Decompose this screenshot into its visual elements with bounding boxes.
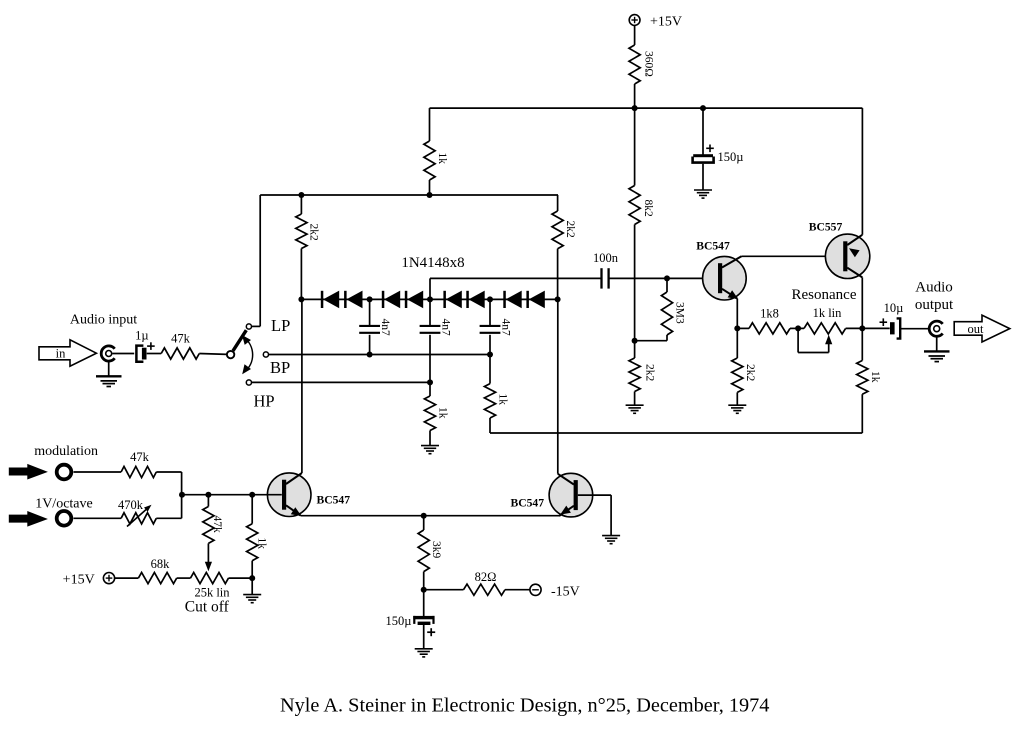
wire 1k to feedback line — [489, 418, 491, 433]
junction 8k2 / 3M3 return — [632, 338, 638, 344]
svg-text:Cut off: Cut off — [185, 599, 230, 616]
svg-text:BC547: BC547 — [317, 494, 351, 507]
resistor 8k2 — [629, 186, 654, 225]
label 25k lin — [194, 585, 230, 599]
junction -15V node — [421, 587, 427, 593]
caption text — [280, 694, 769, 716]
label Audio input — [70, 313, 137, 328]
svg-text:2k2: 2k2 — [644, 364, 656, 382]
junction node B — [367, 296, 373, 302]
junction 4n7 no3 / BP — [487, 352, 493, 358]
resistor 3M3 — [661, 292, 685, 335]
wire node C to 4n7 no2 — [429, 299, 431, 325]
wire rail2 — [260, 194, 558, 196]
junction rail2 / 2k2 left — [298, 192, 304, 198]
1V/octave input arrow — [9, 511, 48, 527]
wire node C up — [429, 278, 431, 299]
svg-text:-15V: -15V — [551, 584, 580, 599]
wire emitter rail to 3k9 — [423, 516, 425, 530]
svg-text:1k: 1k — [256, 538, 268, 550]
label HP — [254, 391, 275, 410]
diode D1 1N4148 — [321, 291, 339, 309]
wire HP line — [252, 381, 430, 383]
svg-text:output: output — [915, 297, 954, 313]
diode D7 1N4148 — [503, 291, 521, 309]
wire Q1 emitter down — [736, 299, 738, 329]
junction Q1 emitter node — [734, 325, 740, 331]
wire 1V terminal to 470k — [74, 517, 122, 519]
wire 68k to pot — [177, 577, 191, 579]
svg-text:68k: 68k — [151, 557, 171, 571]
resistor 68k — [138, 557, 176, 584]
svg-text:1µ: 1µ — [135, 328, 148, 342]
svg-text:4n7: 4n7 — [499, 319, 511, 337]
resistor 3k9 — [418, 530, 442, 572]
label 1N4148x8 — [401, 255, 464, 271]
svg-text:47k: 47k — [211, 516, 223, 534]
wire 47k base rail — [207, 495, 209, 507]
svg-text:360Ω: 360Ω — [643, 51, 655, 77]
wire 2k2 to ground (Q1) — [736, 392, 738, 405]
junction node A (ladder left) — [298, 296, 304, 302]
capacitor 1u (electrolytic) — [135, 328, 155, 362]
svg-text:2k2: 2k2 — [308, 224, 320, 242]
wire 4n7 no3 down through BP — [489, 335, 491, 384]
wire node B to 4n7 no1 — [369, 299, 371, 325]
wire 1k to ground (ladder) — [429, 431, 431, 446]
resistor 1k (feedback leg) — [484, 384, 508, 418]
wire rail2 left corner down to LP — [259, 195, 261, 326]
svg-text:BC557: BC557 — [809, 221, 843, 234]
ground below Q1 2k2 — [728, 405, 746, 413]
modulation input terminal — [57, 465, 72, 480]
wire 1k8 to pot — [790, 327, 804, 329]
svg-text:modulation: modulation — [34, 444, 98, 459]
svg-text:LP: LP — [271, 316, 290, 335]
wire 1k to rail2 — [429, 180, 431, 195]
wire 2k2 left to diode node A — [300, 249, 302, 300]
power terminal -15V — [530, 584, 580, 599]
junction node D — [487, 296, 493, 302]
diode D6 1N4148 — [466, 291, 484, 309]
svg-text:47k: 47k — [130, 450, 150, 464]
resistor 82ohm — [464, 570, 506, 595]
switch blade — [233, 330, 246, 351]
svg-text:150µ: 150µ — [718, 150, 744, 164]
svg-text:47k: 47k — [171, 331, 191, 345]
svg-text:Resonance: Resonance — [792, 287, 857, 303]
capacitor 150u (top, electrolytic) — [693, 145, 744, 165]
wire jack ground stub — [108, 361, 110, 376]
svg-text:+15V: +15V — [650, 14, 682, 29]
svg-text:Audio: Audio — [915, 280, 953, 296]
svg-text:8k2: 8k2 — [642, 200, 654, 218]
wire Q2 collector down — [861, 277, 863, 328]
audio input jack — [101, 346, 114, 361]
svg-text:2k2: 2k2 — [744, 364, 756, 382]
wire pot to cutoff node — [229, 577, 253, 579]
wire 150u to ground — [702, 164, 704, 190]
junction 1k8 / pot wiper — [795, 325, 801, 331]
junction node C (mid) — [427, 296, 433, 302]
wire pot wiper return — [798, 328, 829, 352]
junction output node — [859, 325, 865, 331]
wire node D to 4n7 no3 — [489, 299, 491, 325]
label Audio output — [915, 280, 954, 314]
junction base rail / 47k — [205, 492, 211, 498]
svg-text:470k: 470k — [118, 498, 144, 512]
wire 2k2 mid to ground — [634, 392, 636, 406]
svg-text:Nyle A. Steiner in Electronic: Nyle A. Steiner in Electronic Design, n°… — [280, 694, 769, 716]
wire Q3 base rail — [182, 494, 282, 496]
resistor 1k (base bleed) — [247, 524, 268, 561]
label 1V/octave — [35, 497, 93, 512]
junction base rail corner — [179, 492, 185, 498]
wire 47k mod to corner — [156, 472, 181, 495]
junction cutoff node — [249, 575, 255, 581]
ground below 2k2 mid — [626, 405, 644, 413]
wire -15V node to 82ohm — [424, 589, 464, 591]
transistor Q2 BC557 — [809, 221, 870, 279]
wire 1k top — [251, 495, 253, 524]
junction emitter rail / 3k9 — [421, 513, 427, 519]
wire 1u to 47k — [147, 353, 162, 355]
svg-text:Audio input: Audio input — [70, 313, 137, 328]
wire node A to Q3 collector — [301, 299, 303, 473]
potentiometer 1k lin — [804, 306, 846, 334]
pot wiper arrow — [825, 335, 832, 345]
wire 1k out to feedback line — [861, 394, 863, 433]
resistor 47k (input) — [161, 331, 199, 359]
wire BP line — [269, 354, 490, 356]
power terminal +15V (top) — [629, 14, 682, 29]
ground below input jack — [96, 376, 122, 386]
diode D4 1N4148 — [405, 291, 423, 309]
wire 3k9 to -15V node — [423, 572, 425, 617]
svg-text:4n7: 4n7 — [379, 319, 391, 337]
wire 8k2 to 2k2 mid — [634, 225, 636, 359]
resistor 1k8 — [749, 307, 790, 335]
ground below Q4 base — [602, 536, 620, 544]
junction 4n7 no2 / HP — [427, 379, 433, 385]
wire 47k to pot wiper — [207, 543, 209, 565]
svg-text:BC547: BC547 — [696, 240, 730, 253]
svg-text:100n: 100n — [593, 251, 619, 265]
resistor 2k2 (Q1 emitter) — [732, 358, 756, 392]
wire 100n to BC547 base — [609, 277, 716, 279]
resistor 2k2 (ladder left) — [296, 214, 320, 249]
resistor 47k (modulation) — [121, 450, 156, 478]
switch BP contact — [263, 352, 268, 357]
transistor Q1 BC547 — [696, 240, 746, 301]
switch rotation arc — [242, 335, 253, 374]
label LP — [271, 316, 290, 335]
transistor Q4 BC547 (right of pair, mirrored) — [511, 473, 593, 517]
switch common pole — [227, 351, 234, 358]
resistor 1k (output) — [857, 361, 881, 395]
resistor 2k2 (ladder right) — [552, 211, 576, 249]
capacitor 100n — [593, 251, 619, 289]
wire Q4 base to ground — [578, 495, 611, 535]
diode D2 1N4148 — [344, 291, 362, 309]
wire 3M3 bottom return — [635, 335, 667, 341]
resistor 47k (vertical) — [203, 507, 223, 544]
diode D8 1N4148 — [526, 291, 544, 309]
wire 82ohm to -15V terminal — [505, 589, 530, 591]
resistor 470k (variable) — [118, 498, 156, 527]
wire feedback line (bottom) — [490, 432, 862, 434]
svg-text:in: in — [56, 347, 66, 361]
transistor Q3 BC547 (left of pair) — [267, 473, 350, 517]
wire node E to Q4 collector — [557, 299, 559, 473]
wire Q1 emitter to 1k8 — [737, 327, 749, 329]
wire mod terminal to 47k — [74, 471, 122, 473]
svg-text:BP: BP — [270, 358, 290, 377]
modulation input arrow — [9, 464, 48, 480]
power terminal +15V (cutoff) — [63, 573, 115, 588]
svg-text:1k: 1k — [496, 394, 508, 406]
wire to LP contact — [252, 325, 261, 327]
wire rail2 to 2k2 left — [300, 195, 302, 214]
svg-text:1k lin: 1k lin — [813, 306, 843, 320]
wire diode ladder row — [301, 298, 557, 300]
wire rail to capacitor 150u — [702, 108, 704, 155]
wire 4n7 no1 to BP line — [369, 335, 371, 355]
svg-text:25k lin: 25k lin — [194, 585, 230, 599]
1V/octave input terminal — [57, 511, 72, 526]
svg-text:HP: HP — [254, 391, 275, 410]
wire 150u to ground — [423, 625, 425, 649]
junction rail / 150u — [700, 105, 706, 111]
label BP — [270, 358, 290, 377]
svg-text:+15V: +15V — [63, 573, 95, 588]
svg-text:1k: 1k — [436, 407, 448, 419]
wire +15V to 68k — [115, 577, 139, 579]
input arrow (in) — [39, 340, 96, 366]
cutoff wiper arrow — [205, 562, 212, 572]
junction top rail / 360 — [632, 105, 638, 111]
capacitor 4n7 no3 — [480, 319, 512, 337]
svg-text:1k: 1k — [436, 153, 448, 165]
wire emitter rail — [301, 515, 560, 517]
ground below output jack — [924, 351, 950, 361]
label modulation — [34, 444, 98, 459]
wire output jack ground stub — [936, 336, 938, 351]
junction node E (ladder right) — [555, 296, 561, 302]
wire 470k to corner — [156, 495, 181, 519]
label Resonance — [792, 287, 857, 303]
wire jack to 1u — [113, 353, 135, 355]
wire rail right corner down to BC557 emitter — [861, 108, 863, 235]
capacitor 150u (bottom, electrolytic) — [386, 614, 436, 636]
wire pot to output node — [846, 327, 863, 329]
capacitor 10u (electrolytic) — [880, 301, 904, 339]
svg-text:1N4148x8: 1N4148x8 — [401, 255, 464, 271]
wire 1k bottom — [251, 561, 253, 595]
svg-text:BC547: BC547 — [511, 497, 545, 510]
wire 3M3 top — [666, 278, 668, 292]
wire top rail — [430, 107, 863, 109]
ground below 150u bottom — [415, 649, 433, 657]
junction base rail / 1k — [249, 492, 255, 498]
svg-text:3k9: 3k9 — [430, 541, 442, 559]
wire output node to 1k — [861, 328, 863, 360]
svg-text:1k: 1k — [869, 371, 881, 383]
wire 2k2 right to diode node E — [557, 249, 559, 300]
wire Q1 collector to Q2 base — [742, 255, 844, 257]
switch LP contact — [246, 324, 251, 329]
wire rail2 right corner to 2k2 right — [557, 195, 559, 211]
junction 1k out top — [861, 327, 863, 329]
wire 360 to 8k2 (through rail) — [634, 84, 636, 186]
wire +15V to R 360 — [634, 25, 636, 45]
wire rail left corner down to 1k — [429, 108, 431, 141]
switch HP contact — [246, 380, 251, 385]
svg-text:1k8: 1k8 — [760, 307, 779, 321]
wire 4n7 no2 down to HP line — [429, 335, 431, 396]
ground below cutoff node — [243, 595, 261, 603]
svg-text:out: out — [968, 322, 985, 336]
svg-text:4n7: 4n7 — [439, 319, 451, 337]
resistor 360ohm — [629, 45, 655, 84]
diode D5 1N4148 — [443, 291, 461, 309]
svg-text:82Ω: 82Ω — [475, 570, 497, 584]
resistor 1k (top) — [424, 141, 448, 180]
svg-text:10µ: 10µ — [884, 301, 904, 315]
ground below 150u top — [694, 190, 712, 198]
diode D3 1N4148 — [382, 291, 400, 309]
audio output jack — [929, 321, 942, 336]
output arrow (out) — [954, 315, 1010, 342]
capacitor 4n7 no1 — [359, 319, 391, 337]
svg-text:3M3: 3M3 — [673, 302, 685, 324]
wire node C to 100n — [430, 277, 601, 279]
resistor 1k (below HP) — [424, 396, 448, 431]
ground below ladder 1k — [421, 446, 439, 454]
wire Q1 emitter to 2k2 — [736, 328, 738, 358]
svg-text:2k2: 2k2 — [564, 221, 576, 239]
resistor 2k2 (mid) — [629, 358, 656, 392]
junction 4n7 no1 / BP — [367, 352, 373, 358]
wire 47k to switch — [199, 353, 227, 356]
wire 10u to output jack — [900, 328, 929, 330]
label Cut off — [185, 599, 230, 616]
capacitor 4n7 no2 — [420, 319, 452, 337]
junction 1k / rail2 — [427, 192, 433, 198]
wire output node to 10u — [862, 327, 889, 329]
svg-text:150µ: 150µ — [386, 614, 412, 628]
junction 100n out / 3M3 — [664, 275, 670, 281]
potentiometer 25k lin — [191, 573, 229, 584]
